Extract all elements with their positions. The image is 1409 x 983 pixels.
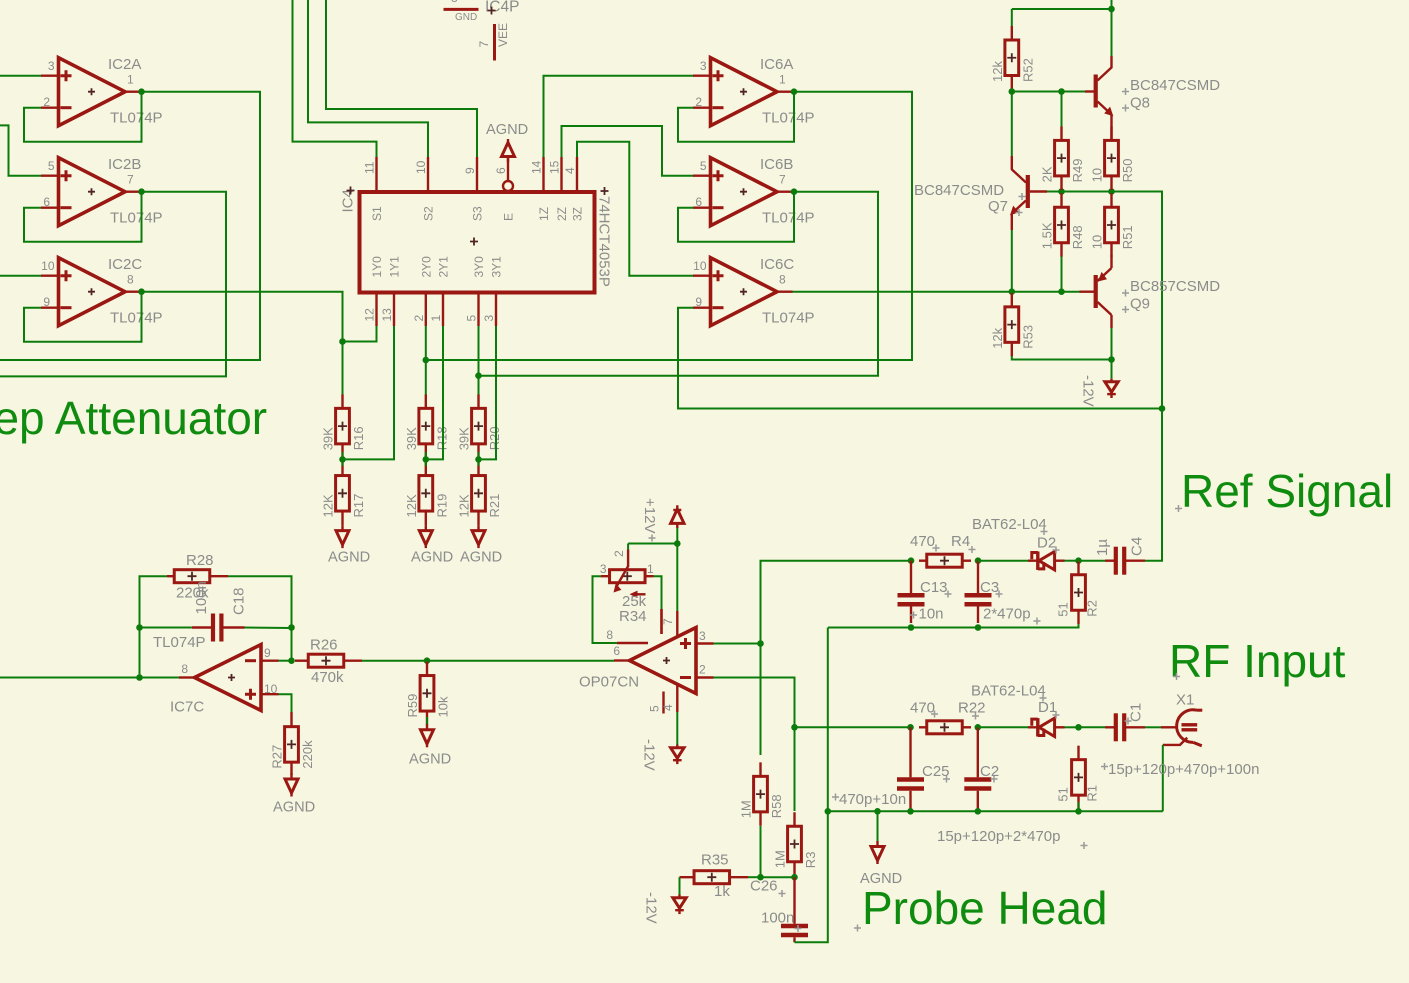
wire C26 to ground rail riser [795, 628, 828, 943]
node R59 top [424, 657, 431, 664]
svg-text:OP07CN: OP07CN [579, 674, 639, 691]
svg-text:1Z: 1Z [537, 207, 551, 221]
wire to C4 [1079, 560, 1106, 562]
wire R16-R17 [342, 452, 344, 466]
wire IC2B feedback [24, 192, 142, 242]
wire pin10 down [279, 694, 292, 712]
wire R26 to OP07 out [362, 660, 614, 662]
svg-text:E: E [502, 213, 516, 221]
svg-text:C2: C2 [980, 763, 999, 780]
node pin2/R18 [423, 357, 430, 364]
resistor R2 [1056, 561, 1100, 625]
svg-text:-12V: -12V [641, 739, 658, 771]
wire to R52 [1011, 9, 1013, 27]
svg-text:39K: 39K [457, 427, 472, 450]
wire Q7 emitter [1011, 230, 1013, 292]
svg-text:3: 3 [48, 59, 55, 73]
node R49 top [1058, 88, 1065, 95]
resistor R17 [321, 462, 367, 526]
svg-text:C18: C18 [231, 587, 248, 615]
node R22/D1/C2 [975, 724, 982, 731]
wire Q7 base [1047, 191, 1062, 193]
wire OP07 pin2 to RF node [714, 678, 795, 728]
svg-text:5: 5 [48, 159, 55, 173]
wire pin4 to -12V [676, 712, 678, 745]
svg-text:BAT62-L04: BAT62-L04 [972, 516, 1047, 533]
resistor R22 [910, 700, 986, 734]
svg-text:AGND: AGND [273, 800, 315, 816]
wire IC4 pin11 to top [293, 0, 377, 157]
svg-text:RF Input: RF Input [1169, 635, 1346, 687]
svg-text:R49: R49 [1070, 158, 1085, 182]
node Q7E/R53 [1009, 288, 1016, 295]
svg-text:2*470p: 2*470p [983, 606, 1031, 623]
svg-text:X1: X1 [1176, 692, 1194, 709]
svg-text:Q8: Q8 [1130, 95, 1150, 112]
wire to IC4 pin 1 [426, 326, 443, 459]
wire to feedback node [1112, 192, 1163, 409]
wire R53 to -12V node [1012, 356, 1112, 360]
wire IC6C -in to feedback node [678, 308, 1162, 409]
wire R2 bottom to left [828, 624, 1079, 627]
node R18/R19 [423, 456, 430, 463]
svg-text:39K: 39K [404, 427, 419, 450]
svg-text:VEE: VEE [496, 23, 510, 47]
resistor R48 [1040, 193, 1086, 257]
diode D1 BAT62-L04 [971, 683, 1065, 737]
wire R34 pin1 to OP07 pin1 [654, 576, 662, 609]
wire R48 bottom [1061, 257, 1063, 292]
svg-text:Probe Head: Probe Head [862, 882, 1108, 934]
svg-text:15p+120p+470p+100n: 15p+120p+470p+100n [1108, 761, 1259, 778]
wire wiper to +12V [628, 543, 677, 545]
svg-text:S1: S1 [370, 206, 384, 221]
resistor R51 [1090, 193, 1136, 257]
wire to IC2C +in [0, 275, 41, 277]
op-amp IC6C [693, 256, 815, 327]
IC IC4 74HCT4053P [340, 157, 613, 326]
svg-text:IC2C: IC2C [108, 256, 142, 273]
capacitor C3 [965, 561, 1031, 623]
svg-text:8: 8 [606, 628, 613, 642]
svg-text:1Y0: 1Y0 [370, 256, 384, 278]
resistor R16 [321, 394, 367, 458]
svg-text:10: 10 [1090, 168, 1105, 182]
svg-text:R28: R28 [186, 552, 214, 569]
node Q9C/-12V [1108, 356, 1115, 363]
wire R22 to D1 [978, 726, 1028, 728]
op-amp IC6B [693, 156, 815, 227]
op-amp IC6A [693, 56, 815, 127]
wire R58 bottom [760, 826, 762, 877]
resistor R35 [680, 852, 749, 901]
ground AGND R59 [409, 724, 451, 767]
svg-text:10: 10 [1090, 235, 1105, 249]
svg-text:-12V: -12V [643, 892, 660, 924]
wire to IC4 pin 12 [343, 326, 377, 342]
node IC6A output [791, 88, 798, 95]
wire up to R28 [140, 576, 168, 627]
svg-text:3: 3 [700, 59, 707, 73]
node +12V [674, 540, 681, 547]
svg-text:AGND: AGND [409, 752, 451, 768]
node IC7C -in [288, 657, 295, 664]
wire R18-R19 [425, 452, 427, 466]
wire R34 wiper up [627, 544, 629, 550]
node C18/R28 right [288, 624, 295, 631]
wire IC4 pin 2 [425, 326, 427, 360]
svg-text:2: 2 [43, 95, 50, 109]
wire R35 to node [748, 876, 761, 878]
svg-text:+12V: +12V [641, 498, 658, 533]
op-amp IC2A [41, 56, 163, 127]
wire to R49 [1061, 92, 1063, 128]
svg-text:2: 2 [412, 315, 426, 322]
power pin VEE IC4P [477, 23, 510, 61]
wire base rail [1062, 191, 1112, 193]
wire Q9 collector down [1111, 328, 1113, 360]
svg-text:15: 15 [548, 160, 562, 174]
svg-text:2Z: 2Z [555, 207, 569, 221]
wire R28 to right node [228, 576, 292, 627]
svg-text:1: 1 [647, 562, 654, 576]
wire R20-R21 [478, 452, 480, 466]
svg-text:R58: R58 [769, 794, 784, 818]
wire C4 to feedback node [1145, 409, 1162, 561]
svg-text:100n: 100n [193, 581, 210, 614]
node D1/R1/C1 [1075, 724, 1082, 731]
resistor R19 [404, 462, 450, 526]
svg-text:1k: 1k [714, 883, 730, 900]
wire D2 to node [1065, 560, 1079, 562]
node C13/R4 [908, 557, 915, 564]
svg-text:IC2B: IC2B [108, 156, 141, 173]
svg-text:C4: C4 [1129, 537, 1146, 556]
transistor Q7 BC847CSMD [914, 156, 1047, 230]
svg-text:R26: R26 [310, 637, 338, 654]
node feedback/C4 [1159, 405, 1166, 412]
wire IC2B out to left edge [0, 192, 226, 377]
capacitor C18 [192, 581, 248, 641]
svg-text:1µ: 1µ [1094, 539, 1111, 556]
svg-text:R59: R59 [405, 694, 420, 718]
svg-text:R17: R17 [351, 494, 366, 518]
wire R58-R3 link [761, 876, 795, 878]
wire IC4 pin10 to top [308, 0, 428, 157]
node pin2/R3/RF [791, 724, 798, 731]
wire IC4 pin9 to top [326, 0, 477, 157]
resistor R50 [1090, 126, 1136, 189]
svg-text:12K: 12K [321, 494, 336, 517]
svg-text:5: 5 [465, 315, 479, 322]
node D2/R2/C4 [1075, 557, 1082, 564]
svg-text:2: 2 [695, 95, 702, 109]
wire R1 bottom [1078, 802, 1080, 811]
node C25/R22 [907, 724, 914, 731]
svg-text:TL074P: TL074P [762, 110, 815, 127]
svg-text:8: 8 [181, 662, 188, 676]
svg-text:R16: R16 [351, 426, 366, 450]
svg-text:10: 10 [693, 259, 707, 273]
node IC2C output [138, 288, 145, 295]
svg-text:10: 10 [41, 259, 55, 273]
node R49/R48/Q7B [1058, 188, 1065, 195]
wire OP07 +in up to ref line [761, 561, 912, 644]
svg-text:10k: 10k [436, 696, 451, 717]
wire to C18 [140, 627, 192, 629]
svg-text:R52: R52 [1020, 58, 1035, 82]
svg-text:1.5K: 1.5K [1040, 222, 1055, 249]
svg-text:GND: GND [455, 12, 477, 23]
svg-text:TL074P: TL074P [110, 110, 163, 127]
wire ground rail [828, 810, 1163, 812]
wire IC7C out [140, 677, 180, 679]
svg-text:1: 1 [779, 72, 786, 86]
svg-text:IC6C: IC6C [760, 256, 794, 273]
wire RF node to C25/R22 [795, 726, 911, 728]
node AGND tap [874, 808, 881, 815]
svg-text:12k: 12k [990, 327, 1005, 348]
node R3/C26 [791, 874, 798, 881]
svg-text:IC2A: IC2A [108, 56, 141, 73]
svg-text:2: 2 [612, 550, 626, 557]
svg-text:3: 3 [482, 315, 496, 322]
wire R34 pin3 to OP07 pin8 [593, 576, 618, 643]
svg-text:2K: 2K [1040, 166, 1055, 182]
svg-text:39K: 39K [321, 427, 336, 450]
resistor R21 [457, 462, 503, 526]
op-amp IC2C [41, 256, 163, 327]
svg-text:S3: S3 [471, 206, 485, 221]
node C25 bottom [907, 808, 914, 815]
svg-text:7: 7 [127, 172, 134, 186]
capacitor C25 [897, 727, 950, 811]
svg-text:AGND: AGND [328, 550, 370, 566]
svg-text:R19: R19 [434, 494, 449, 518]
svg-text:2: 2 [699, 663, 706, 677]
resistor R1 [1056, 746, 1100, 810]
svg-text:8: 8 [127, 272, 134, 286]
svg-text:7: 7 [477, 41, 491, 48]
wire IC4 pin 5 [478, 326, 480, 376]
wire R4 to D2 [978, 560, 1028, 562]
resistor R58 [739, 762, 785, 826]
svg-text:AGND: AGND [460, 550, 502, 566]
resistor R49 [1040, 126, 1086, 189]
wire to IC2A +in [0, 75, 41, 77]
ground AGND R21 [460, 525, 502, 565]
connector X1 [1163, 692, 1203, 746]
svg-text:R27: R27 [270, 745, 285, 769]
wire fb left [139, 628, 141, 678]
node R4/D2/C3 [975, 557, 982, 564]
svg-text:10: 10 [414, 160, 428, 174]
svg-text:1Y1: 1Y1 [388, 256, 402, 278]
svg-text:1: 1 [429, 315, 443, 322]
svg-text:9: 9 [43, 295, 50, 309]
svg-text:TL074P: TL074P [762, 310, 815, 327]
node IC2B output [138, 188, 145, 195]
wire AGND stem [877, 811, 879, 843]
svg-text:3: 3 [600, 562, 607, 576]
svg-text:12: 12 [363, 308, 377, 322]
wire to IC4 pin 13 [343, 326, 395, 459]
resistor R28 [167, 552, 228, 602]
svg-text:R50: R50 [1120, 158, 1135, 182]
transistor Q8 BC847CSMD [1085, 56, 1220, 141]
svg-text:S2: S2 [422, 206, 436, 221]
svg-text:8: 8 [451, 0, 458, 5]
svg-text:15p+120p+2*470p: 15p+120p+2*470p [937, 828, 1060, 845]
trimmer R34 25k [600, 550, 662, 635]
supply -12V OP07 [641, 739, 685, 771]
svg-text:AGND: AGND [411, 550, 453, 566]
svg-text:5: 5 [700, 159, 707, 173]
wire IC4 pin14 to IC6A [544, 76, 694, 157]
node R48/Q9 base [1058, 288, 1065, 295]
svg-text:6: 6 [695, 195, 702, 209]
svg-text:R35: R35 [701, 852, 729, 869]
svg-text:R4: R4 [951, 533, 970, 550]
wire R52 bottom [1011, 89, 1013, 92]
node R58/R35 [757, 874, 764, 881]
op-amp IC5 OP07CN [579, 609, 714, 714]
ground AGND R19 [411, 525, 453, 565]
svg-text:6: 6 [613, 644, 620, 658]
svg-text:3: 3 [699, 629, 706, 643]
svg-text:TL074P: TL074P [762, 210, 815, 227]
resistor R27 [270, 712, 316, 775]
wire to Q7 collector [1011, 92, 1013, 157]
wire IC6A feedback [678, 92, 794, 142]
node R52/Q7C/Q8B [1009, 88, 1016, 95]
wire R59 bottom [426, 717, 428, 726]
wire IC6B feedback [678, 192, 794, 242]
node OP07 +in [757, 640, 764, 647]
svg-text:BC857CSMD: BC857CSMD [1130, 278, 1220, 295]
capacitor C2 [964, 727, 999, 811]
svg-text:470k: 470k [311, 669, 344, 686]
svg-text:14: 14 [530, 160, 544, 174]
wire to R20 [478, 376, 480, 395]
svg-text:R1: R1 [1085, 785, 1100, 802]
svg-text:12k: 12k [990, 60, 1005, 81]
svg-text:220k: 220k [300, 740, 315, 769]
svg-text:IC4: IC4 [340, 189, 357, 212]
svg-text:7: 7 [661, 618, 675, 625]
wire IC4 pin15 to IC6B [562, 126, 694, 176]
supply -12V Q9 [1080, 375, 1119, 407]
wire to C1 [1079, 726, 1106, 728]
svg-text:470p+10n: 470p+10n [839, 791, 906, 808]
diode D2 BAT62-L04 [972, 516, 1065, 570]
resistor R20 [457, 394, 503, 458]
ground AGND R17 [328, 525, 370, 565]
svg-text:IC7C: IC7C [170, 699, 204, 716]
wire C1 to X1 [1145, 726, 1161, 728]
svg-text:51: 51 [1056, 602, 1071, 616]
svg-text:Step Attenuator: Step Attenuator [0, 392, 267, 444]
svg-text:9: 9 [264, 646, 271, 660]
wire IC4 pin4 to IC6C [577, 142, 694, 276]
svg-text:C25: C25 [922, 763, 950, 780]
svg-text:AGND: AGND [486, 122, 528, 138]
capacitor C26 [750, 877, 808, 942]
svg-text:Q7: Q7 [988, 198, 1008, 215]
resistor R18 [404, 394, 450, 458]
resistor R4 [910, 533, 971, 567]
node C2 bottom [975, 808, 982, 815]
svg-text:-12V: -12V [1080, 375, 1097, 407]
svg-text:1: 1 [127, 72, 134, 86]
svg-text:10n: 10n [919, 606, 944, 623]
svg-text:BAT62-L04: BAT62-L04 [971, 683, 1046, 700]
svg-text:2Y1: 2Y1 [437, 256, 451, 278]
svg-text:C13: C13 [920, 579, 948, 596]
wire R35 to -12V [679, 877, 681, 894]
svg-text:Ref Signal: Ref Signal [1181, 465, 1393, 517]
node R16/R17 [339, 456, 346, 463]
resistor R26 [295, 637, 362, 687]
capacitor C1 [1105, 703, 1145, 741]
svg-text:1M: 1M [739, 800, 754, 818]
wire D1 to node [1065, 726, 1079, 728]
wire IC6B out to IC4 pin5 [479, 192, 879, 376]
node R20/R21 [475, 456, 482, 463]
svg-text:12K: 12K [457, 494, 472, 517]
wire to IC2B +in [0, 125, 41, 175]
ground AGND IC4 pin6 [486, 122, 528, 162]
resistor R59 [405, 662, 451, 726]
wire to IC4 pin 3 [479, 326, 497, 459]
wire rail to Q8 collector [1111, 0, 1113, 57]
svg-text:R18: R18 [434, 426, 449, 450]
node R50/R51 [1108, 188, 1115, 195]
supply -12V R35 [643, 892, 687, 924]
svg-text:5: 5 [648, 705, 662, 712]
power pins IC4P [444, 0, 520, 23]
wire IC2C out [142, 292, 343, 395]
node C3 bottom [975, 624, 982, 631]
svg-text:R3: R3 [803, 852, 818, 869]
svg-text:3Y1: 3Y1 [490, 256, 504, 278]
wire IC2C feedback [24, 292, 142, 342]
wire pin9 [279, 660, 292, 662]
wire RF node down to R3 [794, 727, 796, 811]
svg-text:12K: 12K [404, 494, 419, 517]
node R1/ground rail [1075, 808, 1082, 815]
resistor R3 [773, 812, 819, 876]
svg-text:D2: D2 [1037, 535, 1056, 552]
svg-text:74HCT4053P: 74HCT4053P [596, 196, 613, 287]
svg-text:R51: R51 [1120, 225, 1135, 249]
svg-text:R20: R20 [487, 426, 502, 450]
svg-text:8: 8 [779, 272, 786, 286]
svg-text:R2: R2 [1085, 600, 1100, 617]
wire to -12V [1111, 360, 1113, 379]
svg-text:1M: 1M [773, 850, 788, 868]
svg-text:4: 4 [661, 704, 675, 711]
svg-text:9: 9 [463, 167, 477, 174]
svg-text:R22: R22 [958, 700, 986, 717]
svg-text:R21: R21 [487, 494, 502, 518]
svg-text:TL074P: TL074P [110, 210, 163, 227]
wire fb right [291, 628, 293, 661]
capacitor C13 [898, 561, 948, 623]
svg-text:6: 6 [494, 167, 508, 174]
node riser/ground rail [825, 808, 832, 815]
svg-text:R53: R53 [1020, 325, 1035, 349]
